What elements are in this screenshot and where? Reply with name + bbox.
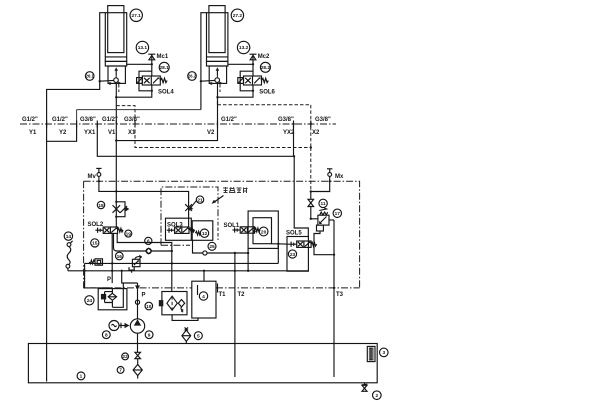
- svg-text:Mv: Mv: [88, 174, 97, 180]
- svg-text:1: 1: [80, 374, 83, 380]
- svg-text:12: 12: [202, 231, 208, 237]
- svg-text:Y1: Y1: [29, 130, 37, 136]
- svg-text:G3/8": G3/8": [278, 117, 294, 123]
- svg-text:17: 17: [335, 211, 341, 217]
- svg-text:SOL1: SOL1: [224, 223, 240, 229]
- svg-text:SOL6: SOL6: [259, 90, 275, 96]
- svg-text:SOL5: SOL5: [286, 231, 302, 237]
- svg-text:8: 8: [105, 333, 108, 339]
- svg-text:20: 20: [261, 229, 267, 235]
- svg-text:G1/2": G1/2": [52, 117, 68, 123]
- svg-text:26.1: 26.1: [86, 74, 95, 79]
- svg-text:28.2: 28.2: [261, 65, 271, 71]
- svg-text:G3/8": G3/8": [124, 117, 140, 123]
- svg-text:25: 25: [209, 244, 215, 250]
- svg-text:Mc2: Mc2: [258, 54, 270, 60]
- svg-text:SOL2: SOL2: [88, 222, 104, 228]
- svg-text:V1: V1: [108, 130, 116, 136]
- svg-text:19: 19: [126, 231, 132, 237]
- svg-text:13.1: 13.1: [138, 45, 148, 51]
- svg-text:V2: V2: [207, 130, 215, 136]
- svg-text:22: 22: [122, 354, 128, 360]
- svg-text:G1/2": G1/2": [102, 117, 118, 123]
- svg-text:27.1: 27.1: [132, 13, 142, 19]
- svg-text:6: 6: [147, 239, 150, 245]
- svg-text:27.2: 27.2: [233, 13, 243, 19]
- svg-text:9: 9: [148, 333, 151, 339]
- svg-text:X2: X2: [312, 130, 320, 136]
- svg-text:28.1: 28.1: [160, 65, 170, 71]
- svg-text:Mx: Mx: [335, 174, 344, 180]
- svg-text:23: 23: [290, 252, 296, 258]
- svg-text:P: P: [107, 277, 111, 283]
- svg-text:13.2: 13.2: [239, 45, 249, 51]
- svg-text:14: 14: [66, 234, 72, 240]
- svg-text:SOL3: SOL3: [167, 223, 183, 229]
- svg-text:G1/2": G1/2": [22, 117, 38, 123]
- svg-text:4: 4: [202, 294, 205, 300]
- svg-text:G3/8": G3/8": [80, 117, 96, 123]
- svg-text:YX1: YX1: [84, 130, 96, 136]
- svg-text:3: 3: [382, 350, 385, 356]
- svg-text:15: 15: [92, 241, 98, 247]
- svg-text:Mc1: Mc1: [157, 54, 169, 60]
- svg-text:P: P: [142, 293, 146, 299]
- svg-text:10: 10: [146, 304, 152, 310]
- svg-text:G3/8": G3/8": [315, 117, 331, 123]
- svg-text:T3: T3: [336, 292, 344, 298]
- svg-text:21: 21: [197, 197, 203, 203]
- svg-text:18: 18: [98, 203, 104, 209]
- svg-text:16: 16: [117, 254, 123, 260]
- svg-text:2: 2: [375, 393, 378, 399]
- svg-text:24: 24: [87, 298, 93, 304]
- svg-text:5: 5: [197, 334, 200, 340]
- svg-text:Y2: Y2: [59, 130, 67, 136]
- svg-text:T2: T2: [238, 292, 246, 298]
- svg-text:26.2: 26.2: [188, 74, 197, 79]
- svg-text:7: 7: [119, 368, 122, 374]
- svg-text:T1: T1: [219, 292, 227, 298]
- svg-text:SOL4: SOL4: [158, 90, 174, 96]
- svg-text:G1/2": G1/2": [221, 117, 237, 123]
- svg-text:11: 11: [321, 201, 326, 207]
